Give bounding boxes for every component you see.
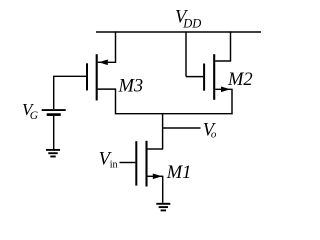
- label Vin: [99, 149, 118, 170]
- VDD rail: [96, 31, 261, 33]
- svg-text:M2: M2: [227, 70, 253, 90]
- svg-text:G: G: [30, 110, 39, 122]
- transistor M2 source arrow: [221, 87, 230, 93]
- transistor M1 source arrow: [153, 174, 162, 180]
- wire VG gate bias vertical (top): [53, 76, 55, 109]
- label VG: [22, 100, 39, 122]
- wire M2 source lead down to output node: [215, 89, 232, 114]
- wire output node drop to M1 drain: [162, 114, 164, 149]
- wire output node horizontal: [115, 113, 233, 115]
- svg-text:M1: M1: [166, 163, 192, 183]
- label Vo: [203, 120, 217, 140]
- wire VG to ground: [53, 116, 55, 149]
- transistor M2 gate bar: [203, 64, 205, 91]
- wire M3 drain to rail: [98, 31, 116, 62]
- transistor M2 channel bar: [213, 54, 215, 100]
- label VDD: [175, 8, 201, 31]
- svg-text:o: o: [211, 128, 217, 140]
- wire M2 gate to rail: [186, 31, 203, 76]
- transistor M3 channel bar: [96, 54, 98, 100]
- wire M3 drain lead down to output node: [98, 89, 116, 114]
- wire M3 gate lead: [53, 75, 86, 77]
- svg-text:in: in: [110, 160, 118, 171]
- ground under M1: [156, 204, 170, 211]
- transistor M1 channel bar: [145, 141, 147, 187]
- svg-text:DD: DD: [182, 16, 201, 30]
- wire M1 gate lead: [120, 162, 136, 164]
- wire M1 source lead down to ground: [148, 176, 164, 203]
- svg-text:M3: M3: [118, 77, 144, 97]
- ground under VG: [46, 150, 60, 157]
- transistor M1 gate bar: [135, 141, 137, 185]
- transistor M3 gate bar: [86, 63, 88, 90]
- wire Vo stub: [163, 127, 201, 129]
- battery VG top plate: [42, 109, 66, 111]
- wire M1 drain lead: [148, 148, 164, 150]
- battery VG bottom plate: [47, 113, 61, 116]
- wire M2 drain to rail: [215, 31, 231, 61]
- transistor M3 source arrow: [99, 60, 108, 66]
